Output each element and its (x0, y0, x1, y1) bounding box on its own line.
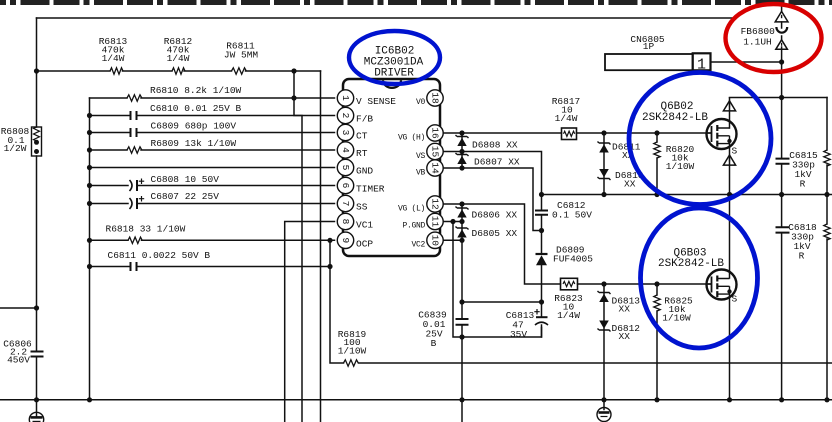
resistor R6825 (654, 295, 660, 311)
svg-text:2SK2842-LB: 2SK2842-LB (642, 112, 708, 124)
inductor FB6800 (776, 27, 787, 33)
fusible resistor R6817 (boxed) (562, 128, 577, 140)
capacitor C6815 (776, 159, 790, 164)
IC pin 12 (427, 196, 443, 212)
svg-text:VB: VB (416, 169, 426, 178)
wire Q6803 drain (729, 195, 731, 279)
label Q6803 2SK2842-LB (658, 248, 724, 271)
capacitor C6809 (131, 128, 137, 137)
svg-text:R6818 33 1/10W: R6818 33 1/10W (106, 224, 186, 235)
warning triangle above Q6802 (723, 101, 735, 111)
label C6812 (552, 200, 592, 221)
wire jog node A x=294/302 (294, 71, 302, 422)
svg-text:V SENSE: V SENSE (356, 96, 396, 107)
wire gate row Q6802 y=133 (442, 132, 707, 134)
wire ground bus y=399.8 (0, 399, 832, 401)
zener diode D6808 (456, 135, 469, 146)
capacitor C6818 (776, 227, 790, 232)
wire C6812 column (541, 195, 543, 231)
svg-text:SS: SS (356, 202, 368, 213)
svg-text:1/4W: 1/4W (167, 53, 190, 64)
label R6808 (1, 126, 30, 154)
wire Q6803 source (729, 292, 731, 400)
connector CN6805 pin 1 box (693, 53, 711, 73)
ground (bottom center) (597, 408, 611, 422)
svg-text:XX: XX (619, 331, 631, 342)
resistor R6813 (110, 68, 123, 74)
wire source line y=194.5 (542, 194, 832, 196)
capacitor C6807 (electrolytic) (130, 196, 145, 209)
wire R6811 row y=71 (37, 70, 321, 72)
zener diode D6812 (598, 321, 611, 332)
label R6823 (554, 293, 583, 321)
annotation blue ellipse around Q6803 (641, 208, 758, 348)
capacitor C6839 (456, 319, 469, 325)
zener diode D6813 (598, 291, 611, 302)
svg-text:VG (L): VG (L) (398, 205, 425, 214)
IC pin 16 (427, 125, 443, 141)
wire row pin1 V SENSE y=98 (90, 97, 335, 99)
svg-text:DRIVER: DRIVER (374, 68, 414, 80)
zener diode D6807 (456, 153, 469, 164)
wire stub left edge y=308 (0, 307, 37, 309)
resistor (right edge lower) (824, 224, 830, 240)
IC pin 18 (427, 90, 443, 106)
svg-text:F/B: F/B (356, 114, 373, 125)
wire top rail y=18 (37, 17, 736, 19)
label CN6805 (630, 34, 665, 52)
IC pin 11 (427, 213, 443, 229)
resistor R6810 (127, 95, 142, 101)
label R6825 (662, 296, 693, 324)
connector CN6805 box (605, 54, 693, 70)
svg-text:R: R (800, 179, 806, 190)
svg-text:8: 8 (340, 219, 351, 225)
svg-text:GND: GND (356, 166, 373, 177)
wire row pin6 TIMER y=185.5 (90, 185, 335, 187)
annotation red ellipse around FB6800 (726, 4, 822, 72)
svg-text:VG (H): VG (H) (398, 134, 425, 143)
svg-text:1/10W: 1/10W (666, 161, 695, 172)
IC pin 14 (427, 160, 443, 176)
diode D6809 FUF4005 (536, 254, 548, 265)
svg-text:C6808 10 50V: C6808 10 50V (151, 174, 220, 185)
resistor R6818 (128, 237, 142, 243)
svg-text:D6805 XX: D6805 XX (472, 228, 518, 239)
fusible resistor R6823 (boxed) (561, 278, 578, 290)
label C6818 (788, 222, 817, 262)
wire right column x=827 (826, 98, 828, 400)
wire CN6805 to FB node y=62 (711, 61, 782, 63)
wire VG(L) row pin12 to R6823 (442, 204, 707, 284)
zener diode D6805 (456, 227, 469, 238)
annotation blue ellipse around IC6802 label (349, 31, 440, 84)
resistor R6809 (127, 147, 142, 153)
svg-text:1: 1 (340, 95, 351, 101)
svg-text:1.1UH: 1.1UH (743, 37, 772, 48)
svg-text:14: 14 (430, 162, 441, 174)
svg-text:10: 10 (430, 235, 441, 247)
svg-text:3: 3 (340, 130, 351, 136)
label C6813 (506, 310, 535, 340)
svg-text:1/10W: 1/10W (662, 313, 691, 324)
zener diode D6810 (598, 169, 611, 180)
svg-text:11: 11 (430, 216, 441, 228)
svg-text:R: R (799, 251, 805, 262)
capacitor C6810 (131, 111, 137, 120)
capacitor C6808 (electrolytic) (130, 179, 145, 192)
svg-text:VC1: VC1 (356, 220, 373, 231)
wire D6809 column (541, 231, 543, 303)
IC pin 10 (427, 232, 443, 248)
wire vertical x=320.5 (320, 71, 322, 422)
label R6819 (338, 329, 367, 357)
svg-text:JW 5MM: JW 5MM (224, 50, 259, 61)
zener diode D6806 (456, 207, 469, 218)
IC pin 9 (337, 232, 353, 248)
svg-text:XX: XX (619, 304, 631, 315)
MOSFET Q6803 (707, 270, 737, 300)
label R6820 (666, 144, 695, 172)
IC pin 15 (427, 143, 443, 159)
svg-text:C6810 0.01 25V B: C6810 0.01 25V B (150, 103, 242, 114)
wire ground stub x=604 (603, 400, 605, 410)
wire ground stub x=36.5 (36, 400, 38, 417)
svg-text:VS: VS (416, 152, 426, 161)
svg-text:P.GND: P.GND (402, 222, 425, 231)
IC pin 7 (337, 195, 353, 211)
svg-text:16: 16 (430, 127, 441, 139)
warning triangle below FB6800 (776, 40, 788, 50)
svg-text:TIMER: TIMER (356, 184, 385, 195)
svg-text:D6806 XX: D6806 XX (472, 210, 518, 221)
label C6839 (418, 310, 447, 350)
svg-text:35V: 35V (510, 329, 527, 340)
wire row y=337 (462, 328, 542, 338)
wire row y=302 (462, 301, 542, 303)
IC pin 8 (337, 213, 353, 229)
svg-text:450V: 450V (7, 355, 30, 366)
resistor R6812 (172, 68, 185, 74)
label R6811 (224, 41, 259, 61)
wire left bus x=89.5 (89, 98, 91, 400)
label D6812 (612, 323, 641, 342)
svg-text:6: 6 (340, 183, 351, 189)
svg-text:D6807 XX: D6807 XX (474, 157, 520, 168)
wire C6813 column (541, 302, 543, 337)
svg-text:V0: V0 (416, 98, 426, 107)
svg-text:0.1 50V: 0.1 50V (552, 210, 592, 221)
svg-text:2: 2 (340, 113, 351, 119)
warning triangle above FB6800 (775, 11, 788, 22)
wire x=462 VC2 column down (461, 240, 463, 422)
wire row pin4 RT y=150 (90, 149, 335, 151)
svg-text:D6808 XX: D6808 XX (472, 140, 518, 151)
capacitor C6806 (31, 352, 44, 357)
label Q6802 2SK2842-LB (642, 101, 708, 124)
label IC6802 MCZ3001DA DRIVER (364, 46, 424, 80)
wire VS row pin15 (442, 152, 542, 195)
label R6817 (552, 96, 581, 124)
wire FB6800 column x=781.6 (781, 5, 783, 400)
IC pin 3 (337, 124, 353, 140)
wire row pin5 GND y=167.5 (90, 167, 335, 169)
IC U1 IC6802 body (343, 79, 440, 256)
wire R6820 column x=657 (656, 133, 658, 195)
resistor R6820 (654, 142, 660, 158)
wire OCP to R6819 x=330 (330, 240, 832, 363)
wire row C6811 y=266.5 (90, 266, 331, 268)
IC pin 4 (337, 142, 353, 158)
svg-text:5: 5 (340, 165, 351, 171)
svg-text:CT: CT (356, 131, 368, 142)
wire row pin3 CT y=132.5 (90, 132, 335, 134)
svg-text:VC2: VC2 (411, 240, 425, 249)
wire left rail x=36.5 (R6808/C6806 column) (36, 18, 38, 400)
svg-text:RT: RT (356, 148, 368, 159)
resistor R6808 (fusible, boxed) (32, 127, 42, 156)
svg-text:1/4W: 1/4W (555, 113, 578, 124)
label C6806 (3, 339, 32, 366)
svg-text:9: 9 (340, 237, 351, 243)
IC pin 6 (337, 177, 353, 193)
wire row pin2 F/B y=115.5 (90, 115, 335, 117)
svg-text:2SK2842-LB: 2SK2842-LB (658, 258, 724, 270)
label C6815 (789, 150, 818, 190)
svg-text:7: 7 (340, 201, 351, 207)
label R6812 (164, 36, 193, 64)
wire D6813/D6812 column x=604 (603, 284, 605, 400)
svg-text:XX: XX (624, 179, 636, 190)
zener diode D6811 (598, 142, 611, 153)
svg-text:R6810 8.2k 1/10W: R6810 8.2k 1/10W (150, 85, 242, 96)
svg-text:1/4W: 1/4W (102, 53, 125, 64)
label D6811 (612, 142, 641, 162)
svg-text:1/10W: 1/10W (338, 346, 367, 357)
svg-text:OCP: OCP (356, 238, 373, 249)
svg-text:FUF4005: FUF4005 (553, 254, 593, 265)
svg-text:4: 4 (340, 147, 351, 153)
resistor R6811 (232, 68, 247, 74)
label D6809 FUF4005 (553, 245, 593, 265)
svg-text:C6811 0.0022 50V B: C6811 0.0022 50V B (108, 250, 211, 261)
svg-text:15: 15 (430, 146, 441, 158)
svg-text:S: S (732, 294, 738, 305)
wire VB row pin14 (442, 168, 542, 231)
svg-text:B: B (431, 338, 437, 349)
wire x=462 diode column top (461, 133, 463, 240)
capacitor C6813 (electrolytic) (534, 309, 548, 325)
svg-text:R6809 13k 1/10W: R6809 13k 1/10W (151, 138, 237, 149)
wire drain node y=97 (730, 97, 828, 99)
IC pin 1 (337, 90, 353, 106)
svg-text:S: S (732, 146, 738, 157)
svg-text:C6807 22 25V: C6807 22 25V (151, 191, 220, 202)
wire row pin8 VC1 y=221.5 x284.7 vertical (285, 222, 335, 422)
svg-text:18: 18 (430, 92, 441, 104)
resistor (right edge upper) (824, 150, 830, 166)
resistor R6819 (344, 360, 359, 366)
svg-text:FB6800: FB6800 (741, 26, 776, 37)
svg-text:C6809 680p 100V: C6809 680p 100V (151, 121, 237, 132)
wire Q6802 source (729, 142, 731, 195)
label D6813 (612, 296, 641, 315)
top dashed border (0, 0, 832, 5)
wire row pin7 SS y=203.5 (90, 203, 335, 205)
wire P.GND row pin11 (442, 222, 462, 338)
IC pin 5 (337, 159, 353, 175)
ground (left) (29, 412, 43, 422)
svg-text:1P: 1P (643, 41, 655, 52)
label FB6800 (741, 26, 776, 48)
junction dots (34, 68, 39, 73)
capacitor C6811 (131, 262, 137, 271)
wire VC2 row pin10 (442, 239, 462, 241)
svg-text:1/4W: 1/4W (557, 310, 580, 321)
capacitor C6812 (535, 211, 548, 215)
svg-text:1/2W: 1/2W (4, 143, 27, 154)
label R6813 (99, 36, 128, 64)
wire D6811/D6810 column x=604 (603, 133, 605, 195)
IC pin 2 (337, 107, 353, 123)
annotation blue ellipse around Q6802 (629, 73, 771, 205)
wire Q6802 drain (729, 98, 731, 128)
svg-text:12: 12 (430, 198, 441, 210)
wire row pin9 OCP y=240.3 (90, 239, 335, 241)
label D6810 (615, 170, 644, 190)
warning triangle below Q6802 (723, 155, 735, 165)
MOSFET Q6802 (707, 119, 737, 149)
wire R6825 column x=657 (656, 284, 658, 400)
